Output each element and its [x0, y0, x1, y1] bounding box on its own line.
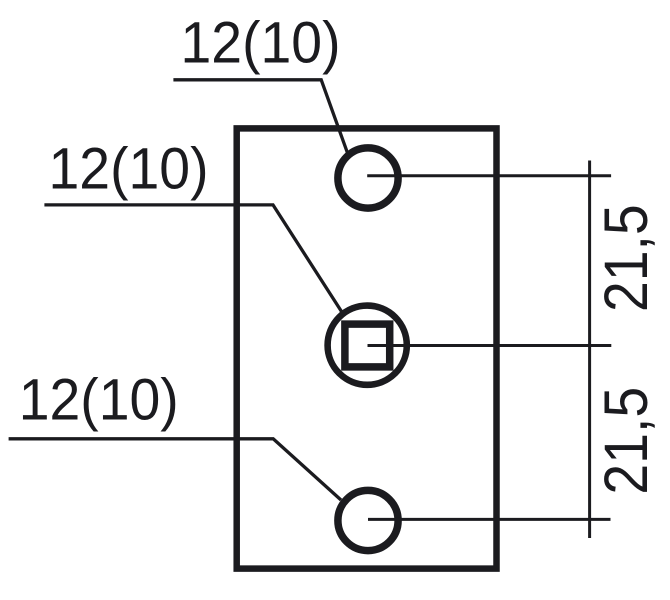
svg-text:12(10): 12(10) — [19, 367, 179, 432]
svg-text:12(10): 12(10) — [49, 137, 209, 202]
center line bottom — [368, 518, 611, 521]
svg-text:12(10): 12(10) — [181, 11, 341, 76]
leader line middle — [44, 205, 341, 312]
leader line top — [173, 80, 347, 153]
hole bottom circle — [338, 490, 398, 550]
svg-text:21,5: 21,5 — [592, 387, 660, 495]
square hole middle — [345, 324, 390, 367]
hole top circle — [338, 148, 398, 208]
hole middle circle — [328, 306, 407, 385]
plate outline — [237, 128, 497, 568]
svg-text:21,5: 21,5 — [592, 204, 660, 312]
dimension line vertical — [588, 161, 591, 539]
center line middle — [368, 344, 612, 347]
center line top — [367, 174, 611, 177]
leader line bottom — [9, 439, 341, 500]
